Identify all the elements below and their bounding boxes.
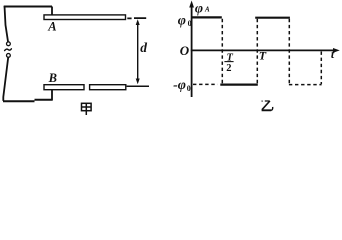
- dashed guide -phi0 from axis: [193, 83, 218, 85]
- dashed vertical at 2T: [320, 52, 322, 85]
- waveform +phi0 segment 0 to T/2: [191, 16, 222, 18]
- wire left lower vertical: [3, 57, 8, 101]
- label jia (Chinese): [82, 103, 92, 115]
- svg-text:A: A: [204, 6, 210, 14]
- dashed vertical at 3T/2: [288, 19, 290, 84]
- plate B right bar: [90, 85, 126, 90]
- plate B right extension: [127, 85, 149, 87]
- AC source tilde: [5, 49, 12, 51]
- wire drop to plate A: [51, 7, 53, 16]
- svg-text:A: A: [47, 20, 56, 34]
- svg-text:-φ: -φ: [173, 78, 186, 93]
- x-axis: [191, 49, 335, 51]
- waveform +phi0 segment T to 3T/2: [255, 17, 290, 19]
- svg-text:O: O: [180, 43, 190, 58]
- dashed -phi0 segment 3T/2 to 2T: [289, 84, 322, 86]
- svg-text:φ: φ: [178, 13, 186, 28]
- wire riser to plate B: [51, 90, 53, 101]
- dashed vertical at T: [256, 19, 258, 84]
- plate A right extension: [127, 17, 146, 19]
- svg-text:B: B: [48, 71, 57, 85]
- plate B left bar: [44, 85, 84, 90]
- y-axis arrowhead: [189, 1, 194, 8]
- dashed vertical at T/2: [221, 19, 223, 84]
- x-axis arrowhead: [333, 48, 340, 53]
- svg-text:T: T: [259, 49, 267, 63]
- dimension arrowhead up: [136, 19, 140, 25]
- svg-text:0: 0: [187, 84, 191, 93]
- y-axis: [191, 5, 193, 98]
- label yi (Chinese): [262, 101, 273, 111]
- AC source terminal upper: [6, 42, 10, 46]
- AC source terminal lower: [6, 54, 10, 58]
- svg-text:φ: φ: [195, 2, 203, 17]
- dimension line d shaft: [137, 22, 139, 81]
- wire bottom horizontal: [3, 100, 52, 102]
- label T/2 fraction: [224, 53, 233, 74]
- wire top horizontal: [4, 6, 52, 8]
- waveform -phi0 segment T/2 to T: [220, 83, 257, 85]
- svg-text:d: d: [140, 40, 147, 55]
- svg-text:2: 2: [226, 63, 231, 74]
- dimension arrowhead down: [136, 79, 140, 85]
- svg-text:0: 0: [188, 19, 192, 28]
- plate A bar: [44, 15, 126, 20]
- wire left upper vertical: [5, 6, 9, 42]
